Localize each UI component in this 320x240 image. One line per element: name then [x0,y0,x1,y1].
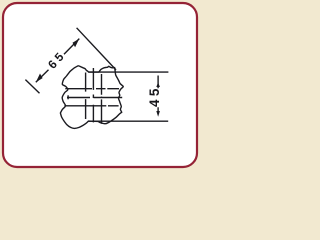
centerline V1 left slot edge x=85.6 [85,73,87,120]
part outline (four-lobed cross-section, freehand wavy) [60,66,123,129]
centerline H3 bottom slot edge y=105.8 [64,105,118,107]
centerline H1 top slot edge y=88.7 [65,88,119,90]
arrowhead 45 up [156,82,160,87]
arrowhead 65 lower-left [36,74,43,83]
centerline H2 horizontal center y=97.5 [67,97,122,99]
dim 65 oblique extension tick lower-left [25,80,39,94]
dim 45 dimension line x=158.1 [157,76,159,112]
dim 45 bottom extension line y=121.2 [89,120,169,122]
dim 65 dimension line segments [36,39,80,83]
dim 65 oblique extension line upper-right [77,28,116,70]
tick cross on H2 at left [67,95,69,99]
arrowhead 65 upper-right [73,39,80,48]
centerline V3 right slot edge x=101.5 [101,74,103,124]
svg-text:45: 45 [147,85,162,107]
centerline V2 vertical center x=93.4 [92,68,94,122]
arrowhead 45 down [156,111,160,117]
dim 45 top extension line y=72.1 [89,71,169,73]
